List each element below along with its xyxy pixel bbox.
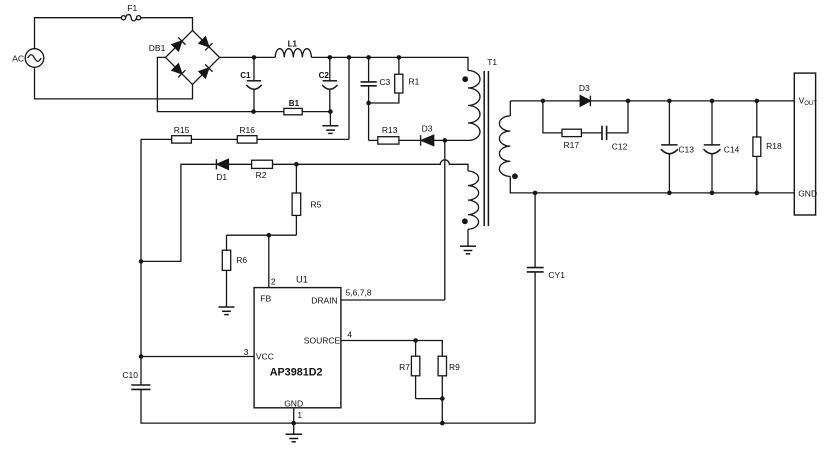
- output terminal block: [794, 73, 815, 215]
- wire left vertical upper: [140, 139, 142, 385]
- svg-text:R13: R13: [382, 125, 398, 135]
- wire C2 to ground: [329, 112, 331, 126]
- primary phase dot: [462, 76, 468, 82]
- svg-text:B1: B1: [289, 99, 300, 108]
- ground below C2: [322, 126, 338, 134]
- node rail-R1: [397, 55, 402, 60]
- svg-text:2: 2: [271, 276, 276, 286]
- node C3-R1: [366, 101, 371, 106]
- resistor R18: [753, 101, 761, 193]
- IC U1 AP3981D2: [254, 288, 341, 408]
- svg-text:C1: C1: [240, 71, 251, 80]
- transformer T1 secondary winding: [499, 101, 535, 193]
- capacitor CY1: [527, 193, 544, 423]
- node C2-bottom: [328, 109, 333, 114]
- svg-text:GND: GND: [798, 189, 817, 199]
- ground below U1 pin1: [286, 434, 302, 442]
- node rail-C3: [366, 55, 371, 60]
- svg-text:DB1: DB1: [149, 43, 166, 53]
- svg-text:D3: D3: [579, 83, 590, 93]
- node FB: [267, 233, 272, 238]
- svg-text:R7: R7: [399, 362, 410, 372]
- aux phase dot: [462, 218, 468, 224]
- svg-text:3: 3: [244, 347, 249, 357]
- wire AC bottom to bridge bottom: [35, 67, 193, 99]
- svg-text:R18: R18: [766, 141, 782, 151]
- node left-VCC: [139, 354, 144, 359]
- ground below aux winding: [460, 246, 476, 254]
- capacitor C10: [131, 385, 150, 389]
- svg-text:R6: R6: [236, 255, 247, 265]
- svg-text:R15: R15: [174, 125, 190, 135]
- node R2-R5: [294, 162, 299, 167]
- diode D1: [216, 159, 251, 169]
- svg-text:C14: C14: [724, 145, 740, 155]
- svg-text:D1: D1: [216, 172, 227, 182]
- diode D3 secondary rectifier: [580, 96, 794, 107]
- node C13-top: [667, 99, 672, 104]
- wire drain vertical: [444, 140, 446, 300]
- resistor R2: [252, 160, 297, 168]
- svg-text:C13: C13: [678, 145, 694, 155]
- wire B1 to C2: [302, 111, 330, 113]
- node C14-top: [710, 99, 715, 104]
- wire secondary top rail: [510, 100, 580, 102]
- transformer T1 aux winding: [468, 171, 479, 229]
- secondary phase dot: [512, 173, 518, 179]
- svg-text:T1: T1: [487, 57, 497, 67]
- resistor R9: [438, 356, 446, 398]
- resistor R13: [378, 137, 421, 144]
- wire DC+ rail: [220, 56, 276, 58]
- resistor R5: [292, 164, 301, 235]
- wire aux to ground: [467, 229, 469, 246]
- wire snubber left drop: [543, 101, 562, 133]
- wire D1 loop: [141, 164, 216, 261]
- wire node to primary bottom: [445, 139, 468, 141]
- transformer T1 primary winding: [468, 71, 480, 141]
- transformer core: [484, 71, 488, 226]
- svg-text:R2: R2: [256, 170, 267, 180]
- node rail-R9: [440, 421, 445, 426]
- resistor R15: [141, 136, 237, 143]
- svg-text:4: 4: [347, 330, 352, 340]
- wire C3 node to R13: [369, 139, 378, 141]
- node sec-bottom: [533, 191, 538, 196]
- wire bridge left corner to negative rail: [157, 57, 253, 111]
- svg-text:GND: GND: [284, 398, 303, 408]
- svg-text:FB: FB: [260, 294, 271, 304]
- svg-text:VCC: VCC: [256, 352, 274, 362]
- diode D3 primary clamp: [421, 135, 445, 145]
- svg-text:R17: R17: [564, 140, 580, 150]
- svg-text:AC: AC: [12, 53, 24, 63]
- wire fuse to bridge top: [141, 18, 193, 31]
- wire left vertical lower: [141, 389, 535, 423]
- wire FB pin: [268, 235, 270, 287]
- node left-D1loop: [139, 259, 144, 264]
- inductor L1: [275, 49, 311, 58]
- svg-text:R5: R5: [311, 200, 322, 210]
- svg-text:C3: C3: [379, 77, 390, 87]
- wire rail L1 to transformer: [311, 57, 468, 70]
- resistor R7: [411, 341, 419, 399]
- svg-text:1: 1: [297, 410, 302, 420]
- svg-text:R16: R16: [239, 125, 255, 135]
- resistor R1: [369, 57, 403, 103]
- svg-text:L1: L1: [288, 39, 298, 48]
- node R18-top: [755, 99, 760, 104]
- capacitor C3: [361, 57, 377, 140]
- wire C1 to B1: [254, 111, 284, 113]
- node snubber-left: [541, 99, 546, 104]
- svg-text:R9: R9: [449, 362, 460, 372]
- wire FB node row: [227, 234, 297, 236]
- capacitor C13: [661, 101, 678, 193]
- bridge rectifier DB1: [166, 30, 220, 84]
- node rail-349: [347, 55, 352, 60]
- wire aux feed with hop: [296, 160, 468, 171]
- svg-text:SOURCE: SOURCE: [304, 336, 341, 346]
- wire VCC: [141, 356, 254, 358]
- wire drain horizontal from U1: [341, 299, 445, 301]
- fuse F1: [121, 15, 140, 21]
- node C13-bottom: [667, 191, 672, 196]
- wire secondary bottom rail: [535, 192, 794, 194]
- AC source V: [25, 49, 44, 68]
- wire SOURCE: [341, 341, 442, 357]
- wire AC top to fuse: [35, 18, 122, 49]
- wire R7-R9 join: [416, 399, 443, 424]
- resistor R6: [222, 235, 230, 307]
- capacitor C1: [246, 57, 261, 111]
- node R9-bottom: [440, 396, 445, 401]
- svg-text:DRAIN: DRAIN: [311, 295, 337, 305]
- capacitor C14: [704, 101, 721, 193]
- node rail-GND: [291, 421, 296, 426]
- node drain-top: [443, 138, 448, 143]
- svg-text:5,6,7,8: 5,6,7,8: [346, 288, 372, 298]
- svg-text:CY1: CY1: [548, 270, 565, 280]
- ferrite bead B1: [284, 108, 302, 114]
- node snubber-right: [626, 99, 631, 104]
- resistor R16: [237, 136, 349, 143]
- svg-text:AP3981D2: AP3981D2: [270, 367, 323, 379]
- node C1-bottom: [251, 109, 256, 114]
- capacitor C2: [322, 57, 337, 111]
- node source-R7: [413, 338, 418, 343]
- node C14-bottom: [710, 191, 715, 196]
- svg-text:C12: C12: [612, 141, 628, 151]
- resistor R17: [562, 129, 602, 136]
- wire rail to R15 row: [348, 57, 350, 139]
- svg-text:U1: U1: [296, 275, 308, 285]
- svg-text:VOUT: VOUT: [799, 95, 818, 107]
- svg-text:C2: C2: [319, 71, 330, 80]
- svg-text:D3: D3: [422, 123, 433, 133]
- node R18-bottom: [755, 191, 760, 196]
- svg-text:R1: R1: [409, 77, 420, 87]
- wire GND pin 1: [293, 408, 295, 434]
- svg-text:F1: F1: [127, 3, 137, 13]
- node rail-C2: [328, 55, 333, 60]
- ground below R6: [219, 307, 235, 315]
- node rail-C1: [252, 55, 257, 60]
- capacitor C12: [602, 101, 628, 140]
- svg-text:C10: C10: [122, 370, 138, 380]
